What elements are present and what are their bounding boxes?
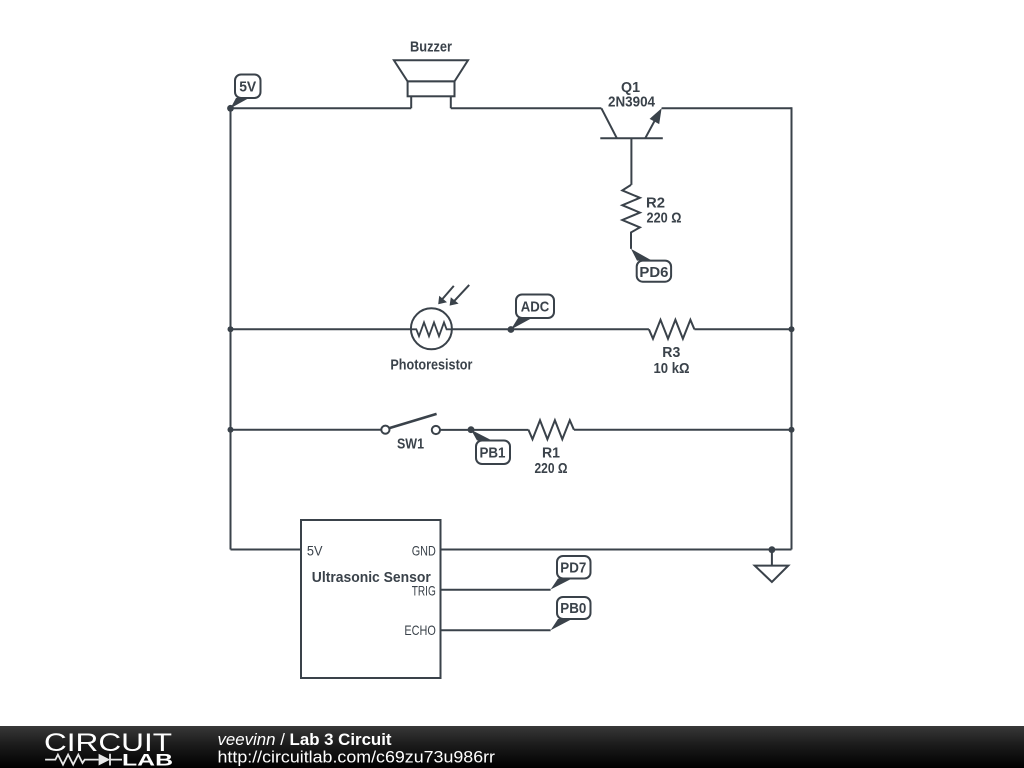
svg-text:ECHO: ECHO xyxy=(404,622,435,638)
svg-text:R1: R1 xyxy=(542,446,560,462)
svg-text:R3: R3 xyxy=(662,345,680,361)
svg-text:SW1: SW1 xyxy=(397,437,424,453)
svg-text:PB1: PB1 xyxy=(480,445,506,462)
svg-text:5V: 5V xyxy=(239,79,256,96)
svg-text:LAB: LAB xyxy=(122,752,173,768)
svg-text:220 Ω: 220 Ω xyxy=(535,461,568,477)
svg-text:Photoresistor: Photoresistor xyxy=(390,358,472,374)
svg-text:TRIG: TRIG xyxy=(412,582,436,598)
svg-text:PD7: PD7 xyxy=(560,560,586,577)
svg-text:PD6: PD6 xyxy=(639,264,668,281)
svg-text:http://circuitlab.com/c69zu73u: http://circuitlab.com/c69zu73u986rr xyxy=(218,748,496,767)
svg-text:veevinn / Lab 3 Circuit: veevinn / Lab 3 Circuit xyxy=(218,731,393,749)
svg-text:R2: R2 xyxy=(646,196,665,212)
svg-text:GND: GND xyxy=(412,543,436,559)
svg-text:5V: 5V xyxy=(307,543,323,559)
svg-text:10 kΩ: 10 kΩ xyxy=(654,361,690,377)
svg-text:220 Ω: 220 Ω xyxy=(647,211,682,227)
svg-text:2N3904: 2N3904 xyxy=(608,95,655,111)
svg-text:PB0: PB0 xyxy=(560,600,586,617)
svg-text:ADC: ADC xyxy=(521,299,550,316)
svg-text:Buzzer: Buzzer xyxy=(410,40,452,56)
